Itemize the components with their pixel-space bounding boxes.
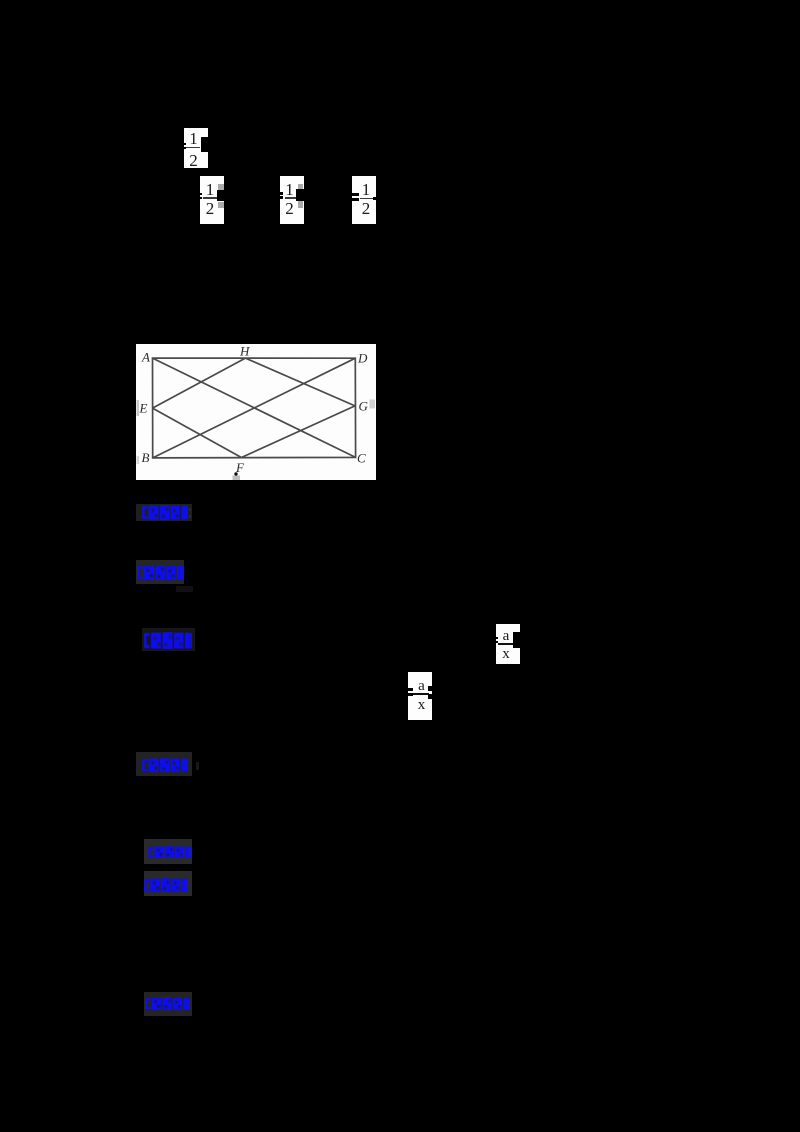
blue tag 1 highlight — [136, 504, 192, 521]
gray tick left of B — [137, 456, 140, 464]
equals sign overlapping fraction 4 left — [351, 193, 359, 196]
segment EH — [153, 358, 246, 408]
gray square right of G — [370, 400, 376, 409]
gray tick left of E — [137, 400, 140, 416]
diagonal BD — [153, 358, 356, 458]
blue tag 2 text — [137, 565, 184, 580]
blue tag 6 highlight — [144, 871, 192, 896]
blue tag 5 text — [148, 846, 191, 858]
blue tag 5 highlight — [144, 839, 192, 864]
fraction 1/2 (second, line 2 first) — [200, 176, 224, 224]
blue tag 3 text — [144, 632, 192, 649]
svg-text:B: B — [142, 450, 150, 465]
gray strip right of fraction 3 — [298, 184, 303, 190]
fraction a/x (second) — [408, 672, 432, 720]
equals dashes left of a/x 2 — [407, 688, 413, 691]
black tip right of fraction 4 — [373, 197, 376, 200]
segment GF — [241, 406, 355, 458]
fraction 1/2 (first, line 1) — [184, 128, 208, 168]
dot below F — [234, 472, 237, 475]
blue tag 2 highlight — [136, 560, 184, 584]
rectangle ABCD — [153, 358, 356, 458]
geometry figure: rectangle ABCD with midpoints E F G H — [136, 344, 376, 480]
blue tag 3 highlight — [142, 628, 195, 651]
equals dashes left of fraction 2 — [199, 193, 202, 195]
gray strip right of fraction 2 — [218, 184, 224, 201]
blue tag 6 text — [144, 878, 188, 892]
svg-text:D: D — [357, 351, 368, 366]
black notch right of fraction 2 — [217, 190, 224, 201]
svg-text:H: H — [239, 344, 250, 359]
black notch right of a/x 1 — [513, 632, 521, 648]
black notch right of fraction 1 — [201, 137, 209, 152]
svg-text:A: A — [141, 350, 150, 365]
blue tag 4 highlight — [136, 752, 192, 776]
fraction 1/2 (third, line 2 second) — [280, 176, 304, 224]
segment FE — [153, 408, 242, 457]
equals dashes left of fraction 3 — [279, 192, 283, 195]
fraction 1/2 (fourth, line 2 third) — [352, 176, 376, 224]
svg-text:C: C — [357, 451, 366, 466]
blue tag 1 text — [142, 505, 188, 520]
faint marks below right of tag 2 — [176, 586, 193, 592]
blue tag 4 text — [142, 758, 188, 772]
equals dashes left of fraction 1 — [183, 143, 186, 145]
equals dashes left of a/x 1 — [495, 637, 498, 639]
black marks right of a/x 2 — [428, 686, 432, 691]
black notch right of fraction 3 — [296, 189, 304, 201]
svg-text:G: G — [359, 399, 369, 414]
diagonal AC — [153, 358, 356, 457]
faint dot right of tag 4 — [196, 762, 199, 770]
blue tag 7 text — [145, 997, 190, 1010]
gray square below F — [233, 476, 241, 481]
segment HG — [245, 358, 355, 406]
blue tag 7 highlight — [144, 992, 192, 1016]
svg-text:E: E — [139, 401, 148, 416]
fraction a/x (first) — [496, 624, 520, 664]
faint dots right of tag 1 — [189, 508, 191, 511]
